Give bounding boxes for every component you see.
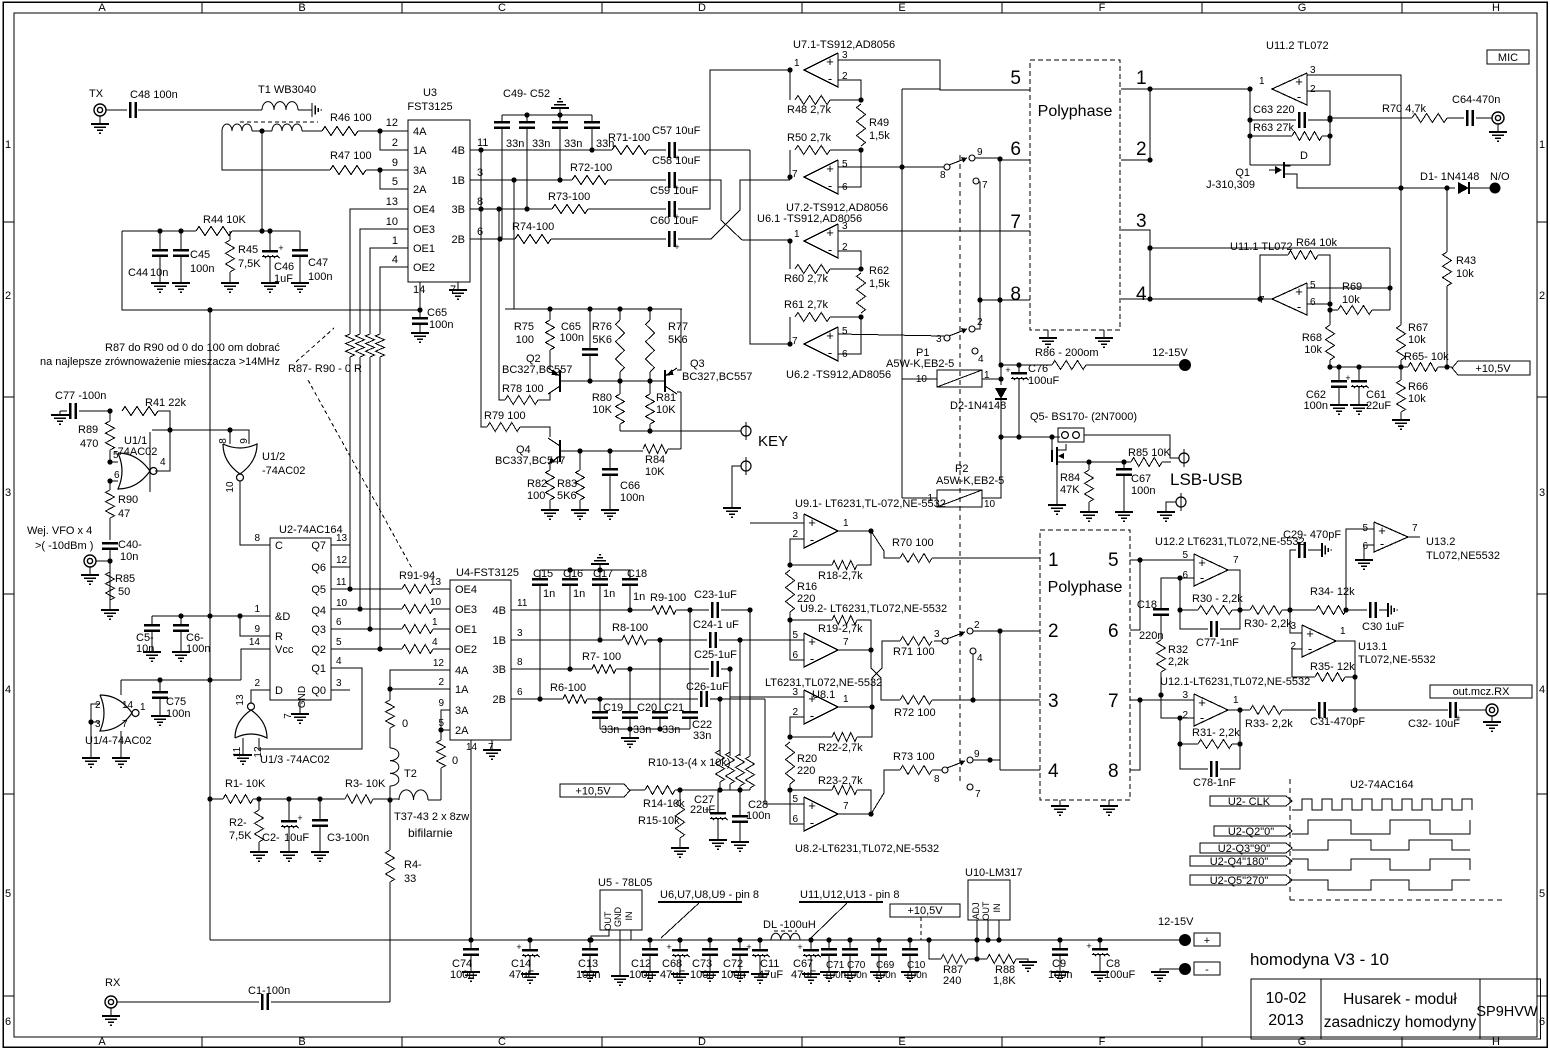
resistor R75 — [514, 309, 555, 365]
svg-text:GND: GND — [297, 686, 308, 708]
wire — [591, 930, 631, 940]
op-amp U13.1 — [1290, 621, 1435, 666]
resistor R90 — [106, 481, 139, 540]
capacitor C28 — [732, 790, 770, 842]
svg-text:Q3: Q3 — [311, 624, 326, 636]
node — [207, 613, 212, 618]
capacitor C63 — [1247, 104, 1332, 128]
svg-text:T2: T2 — [404, 768, 417, 780]
svg-text:12: 12 — [386, 117, 398, 129]
node — [377, 167, 382, 172]
label R91-94 — [399, 570, 435, 582]
node — [524, 112, 529, 117]
svg-text:1: 1 — [254, 604, 260, 615]
svg-text:33n: 33n — [693, 730, 711, 742]
svg-text:F: F — [1099, 1036, 1106, 1048]
svg-text:OE3: OE3 — [455, 604, 477, 616]
ground — [870, 972, 888, 981]
svg-text:6: 6 — [477, 226, 483, 238]
capacitor C52 — [584, 115, 614, 150]
svg-text:6: 6 — [517, 687, 523, 698]
svg-text:-74AC02: -74AC02 — [262, 465, 305, 477]
svg-text:+: + — [808, 634, 816, 649]
svg-text:8: 8 — [934, 774, 940, 785]
wire — [1447, 117, 1464, 119]
wire power rail — [1327, 364, 1408, 369]
svg-text:1n: 1n — [633, 591, 645, 603]
resistor R87 — [346, 334, 355, 357]
svg-text:1: 1 — [1048, 550, 1059, 571]
wire 4B row — [470, 149, 612, 151]
note text — [40, 342, 280, 368]
svg-text:5: 5 — [792, 630, 798, 641]
wire 1B out row — [511, 637, 622, 642]
svg-text:+: + — [1198, 555, 1206, 570]
resistor R15 — [638, 790, 685, 848]
svg-text:2: 2 — [392, 137, 398, 149]
node — [417, 307, 422, 312]
resistor R62 — [857, 265, 891, 313]
wire 3B row — [470, 208, 552, 210]
svg-text:11: 11 — [517, 598, 528, 609]
wire — [367, 357, 372, 632]
svg-text:Q1: Q1 — [311, 663, 326, 675]
svg-text:-: - — [810, 708, 814, 723]
ground — [411, 333, 429, 342]
svg-text:U3: U3 — [423, 87, 437, 99]
capacitor C11 — [746, 940, 783, 981]
node — [286, 796, 291, 801]
svg-text:13: 13 — [235, 694, 246, 706]
svg-text:C: C — [498, 2, 506, 14]
svg-text:1: 1 — [392, 235, 398, 247]
svg-text:1: 1 — [1233, 695, 1239, 706]
svg-text:4B: 4B — [452, 145, 465, 157]
ground sideways — [1388, 603, 1397, 617]
svg-text:-: - — [828, 71, 832, 86]
resistor R93 — [402, 617, 438, 634]
resistor R50 — [787, 132, 864, 177]
node U2-Q5 waveform — [1190, 875, 1470, 890]
svg-text:C26-1uF: C26-1uF — [686, 681, 729, 693]
wire Q7 stub — [331, 544, 350, 546]
wire — [366, 169, 408, 171]
svg-text:+: + — [1306, 626, 1314, 641]
transistor Q1 JFET — [1206, 150, 1455, 191]
svg-text:R44 10K: R44 10K — [203, 214, 246, 226]
wire — [972, 654, 974, 700]
svg-text:R79 100: R79 100 — [484, 410, 526, 422]
svg-text:1A: 1A — [455, 684, 469, 696]
switch contact 4 — [972, 348, 984, 365]
wire line4b — [1000, 769, 1040, 771]
svg-text:+: + — [278, 243, 283, 253]
svg-text:-: - — [1308, 641, 1312, 656]
svg-text:1n: 1n — [603, 588, 615, 600]
switch contact 8 — [940, 164, 950, 181]
svg-text:R81: R81 — [656, 392, 676, 404]
svg-text:TL072,NE-5532: TL072,NE-5532 — [1358, 654, 1436, 666]
svg-text:12: 12 — [336, 555, 348, 566]
wire Q2 row — [331, 648, 402, 650]
node — [207, 307, 212, 312]
svg-text:4: 4 — [5, 684, 11, 696]
svg-text:U2-Q4"180": U2-Q4"180" — [1210, 856, 1269, 868]
svg-text:R85 10K: R85 10K — [1128, 447, 1171, 459]
svg-text:R75: R75 — [514, 321, 534, 333]
svg-text:10: 10 — [225, 481, 236, 493]
svg-text:R34- 12k: R34- 12k — [1310, 586, 1355, 598]
resistor R71 — [608, 132, 650, 155]
svg-text:C18: C18 — [627, 568, 647, 580]
svg-text:13: 13 — [336, 533, 348, 544]
node — [497, 236, 502, 241]
svg-text:6: 6 — [114, 470, 120, 481]
svg-text:R72-100: R72-100 — [570, 162, 612, 174]
svg-text:-74AC02: -74AC02 — [114, 446, 157, 458]
resistor R46 — [322, 112, 372, 136]
resistor R47 — [330, 150, 372, 175]
node — [557, 112, 562, 117]
capacitor C10 — [902, 940, 927, 981]
svg-text:U2- CLK: U2- CLK — [1228, 796, 1271, 808]
wire — [1160, 969, 1179, 972]
connector KEY — [737, 422, 788, 450]
svg-text:C57 10uF: C57 10uF — [652, 125, 701, 137]
svg-text:3A: 3A — [455, 705, 469, 717]
wire — [1408, 536, 1420, 538]
svg-text:R30- 2,2k: R30- 2,2k — [1244, 618, 1292, 630]
svg-text:zasadniczy homodyny: zasadniczy homodyny — [1324, 1014, 1477, 1031]
resistor R19 — [790, 616, 871, 651]
transistor Q2 — [502, 353, 572, 394]
capacitor C74 — [450, 940, 479, 981]
svg-text:C31-470pF: C31-470pF — [1310, 716, 1365, 728]
wire — [790, 620, 804, 660]
node — [808, 937, 813, 942]
svg-text:U10-LM317: U10-LM317 — [965, 867, 1022, 879]
op-amp U5 78L05 box — [598, 877, 652, 931]
node — [588, 937, 593, 942]
svg-text:1: 1 — [1259, 76, 1265, 87]
svg-text:-: - — [810, 532, 814, 547]
svg-text:10k: 10k — [1456, 268, 1474, 280]
node — [157, 228, 162, 233]
svg-text:U2-Q2"0": U2-Q2"0" — [1228, 826, 1274, 838]
capacitor C3 — [312, 799, 369, 852]
svg-text:H: H — [1492, 2, 1500, 14]
ground — [1392, 420, 1410, 429]
svg-text:C78-1nF: C78-1nF — [1193, 777, 1236, 789]
capacitor C13 — [576, 940, 600, 981]
svg-text:10k: 10k — [1304, 344, 1322, 356]
ground — [280, 852, 298, 861]
svg-text:R8-100: R8-100 — [612, 622, 648, 634]
svg-text:R30 - 2,2k: R30 - 2,2k — [1192, 593, 1243, 605]
node — [996, 937, 1001, 942]
svg-text:2: 2 — [792, 707, 798, 718]
node — [737, 937, 742, 942]
svg-text:7: 7 — [843, 801, 849, 812]
switch lever — [947, 760, 965, 768]
node — [207, 677, 212, 682]
svg-text:R16: R16 — [797, 581, 817, 593]
node — [207, 796, 212, 801]
svg-text:11: 11 — [336, 577, 347, 588]
ground — [701, 972, 719, 981]
wire — [740, 639, 804, 641]
svg-text:D: D — [1300, 150, 1308, 162]
svg-text:R33- 2,2k: R33- 2,2k — [1245, 718, 1293, 730]
ground — [1095, 338, 1113, 347]
op-amp U7.2 — [786, 159, 888, 214]
switch contact 2 — [969, 300, 983, 332]
wire — [209, 680, 211, 940]
resistor R69 — [1327, 281, 1390, 315]
capacitor C49 — [494, 115, 524, 239]
flag +10,5V — [1452, 361, 1530, 375]
svg-text:BC337,BC547: BC337,BC547 — [495, 455, 565, 467]
wire — [380, 170, 408, 189]
wire — [110, 450, 119, 462]
svg-text:OE3: OE3 — [413, 224, 435, 236]
wire — [1282, 709, 1316, 711]
connector KEY return — [732, 457, 751, 508]
capacitor C5 — [136, 616, 160, 655]
svg-text:4A: 4A — [413, 126, 427, 138]
svg-text:U2-Q3"90": U2-Q3"90" — [1218, 843, 1271, 855]
op-amp U13.2 — [1362, 522, 1500, 562]
svg-text:5: 5 — [113, 450, 119, 461]
svg-text:+: + — [1295, 74, 1303, 89]
wire — [1016, 959, 1028, 962]
svg-text:C77 -100n: C77 -100n — [55, 390, 106, 402]
capacitor C69 — [871, 940, 896, 981]
svg-text:3: 3 — [95, 719, 101, 730]
svg-text:C15: C15 — [533, 568, 553, 580]
resistor R33 — [1240, 706, 1293, 731]
wire bottom rail — [210, 939, 1185, 941]
svg-text:+: + — [1295, 284, 1303, 299]
svg-text:R19-2,7k: R19-2,7k — [818, 623, 863, 635]
capacitor C8 — [1086, 940, 1135, 981]
switch contact 7 — [973, 178, 988, 191]
node — [737, 787, 742, 792]
capacitor C14 — [509, 940, 540, 981]
ground — [1091, 972, 1109, 981]
node — [178, 613, 183, 618]
connector VFO input — [84, 555, 113, 567]
svg-text:33n: 33n — [506, 138, 524, 150]
wire line2 — [1121, 157, 1153, 162]
node — [826, 937, 831, 942]
wire pin14 U3 — [419, 282, 421, 310]
svg-text:5K6: 5K6 — [557, 490, 577, 502]
node — [647, 378, 652, 383]
resistor R94 — [402, 637, 438, 654]
wire — [1130, 560, 1140, 630]
svg-text:DL -100uH: DL -100uH — [763, 919, 816, 931]
svg-text:10k: 10k — [1342, 294, 1360, 306]
label C49-C52 — [503, 88, 550, 100]
switch contact 3b — [934, 629, 948, 644]
wire pin6 U6.2 — [838, 317, 861, 354]
wire 2A row — [438, 727, 450, 732]
svg-text:2: 2 — [974, 620, 980, 631]
svg-text:2: 2 — [1539, 290, 1545, 302]
resistor R13 — [716, 699, 725, 790]
resistor R84b — [1060, 462, 1094, 512]
resistor R3 — [345, 778, 386, 804]
svg-text:3: 3 — [5, 487, 11, 499]
wire — [600, 726, 690, 731]
ground — [81, 575, 99, 584]
svg-text:10k: 10k — [1408, 393, 1426, 405]
svg-text:3: 3 — [934, 629, 940, 640]
connector RX — [105, 977, 121, 1008]
svg-text:1: 1 — [140, 702, 146, 713]
wire — [997, 159, 1002, 365]
svg-text:5: 5 — [842, 159, 848, 170]
svg-text:1: 1 — [843, 694, 849, 705]
resistor R34 — [1310, 586, 1355, 615]
ground — [312, 103, 321, 117]
op-amp U6.1 — [757, 213, 862, 258]
wire — [790, 717, 804, 737]
jumper — [1058, 428, 1084, 442]
wire — [982, 434, 1004, 498]
wire — [253, 798, 345, 800]
svg-text:5: 5 — [842, 326, 848, 337]
wire — [750, 150, 790, 344]
wire — [122, 230, 196, 232]
svg-text:10k: 10k — [1408, 334, 1426, 346]
svg-text:OUT: OUT — [981, 901, 991, 921]
svg-text:4: 4 — [160, 457, 166, 468]
wire pin2 U11.2 — [1307, 91, 1330, 165]
resistor R67 — [1397, 185, 1429, 367]
switch contact 8b — [934, 767, 948, 785]
wire — [1177, 715, 1194, 720]
resistor R88 — [987, 955, 1016, 988]
svg-text:33n: 33n — [601, 724, 619, 736]
ground — [1100, 806, 1118, 815]
svg-text:R62: R62 — [869, 265, 889, 277]
wire 2B row — [470, 238, 515, 240]
node — [267, 228, 272, 233]
resistor R77 — [646, 309, 689, 381]
svg-text:Q6: Q6 — [311, 562, 326, 574]
svg-text:100n: 100n — [620, 492, 644, 504]
ground — [1019, 962, 1037, 971]
svg-text:ADJ: ADJ — [971, 902, 981, 919]
op-amp U3 FST3125 box — [386, 87, 489, 296]
capacitor C47 — [292, 231, 332, 283]
node — [237, 613, 242, 618]
resistor R31 — [1177, 710, 1242, 749]
node — [787, 174, 792, 179]
label Q5 — [1030, 411, 1137, 423]
wire 8D rail — [152, 615, 270, 617]
wire — [1130, 697, 1194, 702]
capacitor C70 — [842, 940, 867, 981]
capacitor C22 — [682, 610, 712, 742]
svg-text:100n: 100n — [560, 332, 584, 344]
svg-text:10n: 10n — [150, 267, 168, 279]
svg-text:C40-: C40- — [118, 539, 142, 551]
wire — [1161, 578, 1180, 608]
svg-text:2: 2 — [254, 678, 260, 689]
op-amp U10 LM317 box — [965, 867, 1022, 921]
svg-text:3: 3 — [517, 628, 523, 639]
op-amp U11.2 — [1259, 40, 1329, 105]
wire — [380, 267, 408, 334]
op-amp U12.1 — [1160, 676, 1310, 726]
svg-text:R84: R84 — [645, 454, 665, 466]
wire — [373, 797, 399, 802]
wire pin5 U6.2 — [838, 334, 944, 336]
ground — [1115, 512, 1133, 521]
svg-text:+: + — [1086, 941, 1091, 951]
resistor R85 — [106, 572, 136, 600]
svg-text:Q2: Q2 — [311, 644, 326, 656]
svg-text:U6,U7,U8,U9 - pin 8: U6,U7,U8,U9 - pin 8 — [660, 889, 759, 901]
wire mech dashed — [959, 155, 961, 785]
svg-text:13: 13 — [430, 577, 442, 588]
node — [157, 677, 162, 682]
node — [1097, 937, 1102, 942]
resistor R66 — [1397, 367, 1429, 420]
svg-text:3: 3 — [1136, 211, 1147, 232]
capacitor C73 — [690, 940, 718, 981]
svg-text:homodyna V3 - 10: homodyna V3 - 10 — [1250, 950, 1389, 969]
node — [647, 937, 652, 942]
svg-text:R69: R69 — [1342, 281, 1362, 293]
wire — [158, 411, 170, 430]
wire pin2 U7.1 — [838, 80, 861, 100]
svg-text:4: 4 — [1136, 284, 1147, 305]
ground — [802, 974, 820, 983]
svg-text:11: 11 — [477, 137, 488, 149]
resistor R70b — [1382, 103, 1447, 123]
node — [527, 937, 532, 942]
svg-text:-: - — [828, 178, 832, 193]
svg-text:R20: R20 — [797, 753, 817, 765]
capacitor C26 — [686, 681, 729, 707]
svg-text:1: 1 — [1539, 139, 1545, 151]
svg-text:1A: 1A — [413, 145, 427, 157]
svg-text:R73 100: R73 100 — [893, 751, 935, 763]
wire — [721, 607, 753, 612]
capacitor C65 dup — [560, 309, 598, 381]
svg-text:C30 1uF: C30 1uF — [1362, 621, 1404, 633]
wire — [677, 309, 682, 370]
ground — [641, 972, 659, 981]
resistor R72 100 — [894, 696, 936, 720]
svg-text:100: 100 — [516, 334, 534, 346]
label MIC — [1487, 50, 1529, 64]
svg-text:R6-100: R6-100 — [550, 682, 586, 694]
switch lever — [949, 328, 967, 336]
wire — [678, 180, 790, 239]
capacitor C59 — [650, 185, 699, 222]
wire — [630, 789, 645, 791]
svg-text:47uF: 47uF — [791, 969, 816, 981]
wire — [559, 108, 561, 115]
svg-text:-: - — [1200, 570, 1204, 585]
ground — [1051, 972, 1069, 981]
wire — [540, 567, 630, 572]
